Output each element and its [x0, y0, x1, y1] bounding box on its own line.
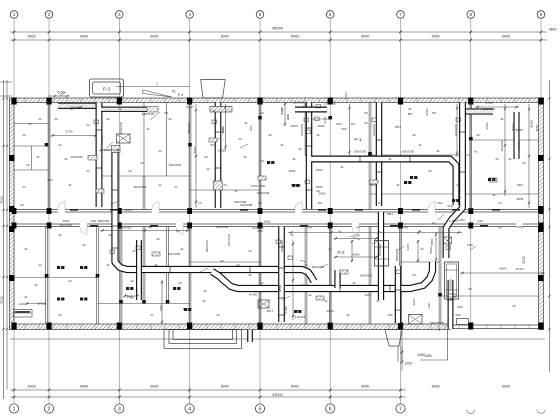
svg-text:7000: 7000 — [0, 296, 4, 304]
svg-text:42: 42 — [236, 263, 240, 267]
svg-text:3000: 3000 — [28, 35, 36, 39]
svg-text:160X120: 160X120 — [227, 234, 231, 247]
svg-text:42: 42 — [58, 313, 62, 317]
svg-text:P-4: P-4 — [178, 93, 184, 97]
svg-text:42: 42 — [412, 133, 416, 137]
svg-text:1,0: 1,0 — [198, 201, 203, 205]
svg-text:280: 280 — [257, 229, 262, 233]
svg-text:42: 42 — [420, 247, 424, 251]
svg-text:1950: 1950 — [159, 304, 163, 311]
svg-text:BH4: BH4 — [395, 125, 401, 129]
svg-text:6000: 6000 — [80, 384, 88, 388]
svg-text:2600: 2600 — [125, 208, 132, 212]
svg-text:P-3: P-3 — [103, 87, 111, 92]
svg-text:460X298: 460X298 — [216, 225, 229, 229]
svg-text:46#X96: 46#X96 — [500, 140, 504, 151]
svg-text:42: 42 — [22, 133, 26, 137]
svg-text:8: 8 — [470, 12, 473, 17]
svg-text:41: 41 — [260, 281, 264, 285]
svg-text:630X250: 630X250 — [312, 265, 325, 269]
svg-text:44: 44 — [128, 169, 132, 173]
svg-text:45000: 45000 — [272, 26, 284, 31]
svg-text:41: 41 — [108, 233, 112, 237]
svg-text:42: 42 — [268, 133, 272, 137]
svg-text:41: 41 — [338, 230, 342, 234]
svg-text:4: 4 — [188, 406, 191, 412]
svg-text:44: 44 — [26, 163, 30, 167]
svg-text:42: 42 — [130, 279, 134, 283]
svg-text:3: 3 — [118, 406, 121, 412]
svg-text:41: 41 — [132, 249, 136, 253]
svg-text:3050: 3050 — [535, 124, 539, 131]
svg-text:630X250: 630X250 — [402, 150, 415, 154]
svg-text:44: 44 — [412, 273, 416, 277]
svg-text:560: 560 — [455, 313, 460, 317]
svg-text:6: 6 — [329, 406, 332, 412]
svg-text:41: 41 — [346, 313, 350, 317]
svg-text:5450: 5450 — [517, 225, 524, 229]
svg-text:6000: 6000 — [150, 384, 158, 388]
svg-text:1: 1 — [156, 82, 158, 86]
svg-text:42: 42 — [54, 117, 58, 121]
svg-text:MHB: MHB — [517, 197, 524, 201]
svg-text:41: 41 — [58, 233, 62, 237]
svg-text:42: 42 — [28, 122, 32, 126]
svg-text:41: 41 — [154, 263, 158, 267]
svg-text:1: 1 — [13, 12, 16, 17]
svg-text:41: 41 — [24, 247, 28, 251]
svg-text:1800: 1800 — [291, 124, 298, 128]
svg-text:42: 42 — [364, 121, 368, 125]
svg-text:1750: 1750 — [486, 101, 493, 105]
svg-text:1468: 1468 — [517, 142, 521, 149]
svg-text:648X128: 648X128 — [142, 112, 155, 116]
svg-text:41J40: 41J40 — [249, 293, 258, 297]
svg-text:42: 42 — [216, 313, 220, 317]
svg-text:160: 160 — [387, 313, 392, 317]
svg-text:44: 44 — [22, 185, 26, 189]
svg-text:41K325: 41K325 — [295, 315, 306, 319]
svg-text:400X200: 400X200 — [300, 124, 304, 137]
svg-text:6000: 6000 — [502, 384, 510, 388]
svg-text:41: 41 — [280, 143, 284, 147]
svg-text:41: 41 — [376, 299, 380, 303]
svg-text:42: 42 — [220, 259, 224, 263]
svg-text:6800: 6800 — [500, 267, 507, 271]
svg-text:3650: 3650 — [221, 126, 225, 133]
svg-text:F1: F1 — [432, 221, 436, 225]
svg-text:630X500: 630X500 — [360, 274, 373, 278]
svg-text:560: 560 — [457, 305, 462, 309]
svg-text:41: 41 — [340, 165, 344, 169]
svg-text:41: 41 — [244, 121, 248, 125]
svg-text:4,8: 4,8 — [258, 201, 263, 205]
svg-text:42: 42 — [304, 263, 308, 267]
svg-text:42: 42 — [324, 299, 328, 303]
svg-text:1150 1000: 1150 1000 — [251, 184, 266, 188]
svg-text:44: 44 — [223, 183, 227, 187]
svg-text:41: 41 — [24, 295, 28, 299]
svg-text:41: 41 — [158, 149, 162, 153]
svg-text:41: 41 — [38, 117, 42, 121]
svg-text:2100: 2100 — [323, 116, 327, 123]
svg-text:41: 41 — [292, 157, 296, 161]
svg-text:500: 500 — [47, 178, 52, 182]
svg-text:CkT: CkT — [437, 325, 441, 331]
svg-text:380X200: 380X200 — [205, 240, 209, 253]
svg-text:H8: H8 — [432, 111, 436, 115]
svg-text:2050: 2050 — [425, 108, 429, 115]
svg-text:4300: 4300 — [353, 253, 360, 257]
svg-text:41: 41 — [106, 263, 110, 267]
svg-text:H9: H9 — [404, 226, 408, 230]
svg-text:2: 2 — [48, 406, 51, 412]
svg-text:F1: F1 — [498, 201, 502, 205]
svg-text:H3: H3 — [378, 201, 382, 205]
svg-text:3: 3 — [118, 12, 121, 17]
svg-text:42: 42 — [106, 117, 110, 121]
svg-text:42: 42 — [238, 137, 242, 141]
svg-text:7000: 7000 — [0, 196, 4, 204]
svg-text:41: 41 — [158, 183, 162, 187]
svg-text:42: 42 — [38, 263, 42, 267]
svg-text:630X250: 630X250 — [354, 150, 367, 154]
svg-text:K23 320X250: K23 320X250 — [91, 219, 110, 223]
svg-text:41: 41 — [260, 226, 264, 230]
svg-text:42: 42 — [140, 161, 144, 165]
svg-text:41: 41 — [436, 149, 440, 153]
svg-text:560?: 560? — [450, 292, 457, 296]
svg-text:1800: 1800 — [289, 169, 296, 173]
svg-text:41: 41 — [456, 183, 460, 187]
svg-text:BH: BH — [408, 112, 412, 116]
svg-text:41: 41 — [150, 313, 154, 317]
svg-text:6000: 6000 — [221, 384, 229, 388]
svg-text:1450: 1450 — [424, 354, 432, 358]
svg-text:42: 42 — [68, 279, 72, 283]
svg-text:41: 41 — [290, 233, 294, 237]
svg-text:6: 6 — [329, 12, 332, 17]
svg-text:42: 42 — [308, 293, 312, 297]
svg-text:P.RNB: P.RNB — [100, 135, 104, 144]
svg-text:41: 41 — [388, 157, 392, 161]
svg-text:940: 940 — [286, 114, 290, 119]
svg-text:41: 41 — [408, 107, 412, 111]
svg-text:3,90: 3,90 — [427, 303, 431, 309]
svg-text:1800: 1800 — [264, 220, 271, 224]
svg-text:42: 42 — [508, 157, 512, 161]
svg-text:42: 42 — [260, 111, 264, 115]
svg-text:42: 42 — [522, 161, 526, 165]
svg-text:42: 42 — [20, 203, 24, 207]
svg-text:140X325: 140X325 — [119, 226, 132, 230]
svg-text:P1: P1 — [172, 90, 176, 94]
svg-text:42: 42 — [316, 189, 320, 193]
svg-text:4650: 4650 — [327, 309, 334, 313]
svg-text:M51: M51 — [387, 212, 393, 216]
svg-text:41: 41 — [180, 247, 184, 251]
svg-text:41: 41 — [328, 247, 332, 251]
svg-text:526: 526 — [447, 204, 452, 208]
svg-text:41: 41 — [212, 109, 216, 113]
svg-text:6000: 6000 — [221, 35, 229, 39]
svg-text:400X200: 400X200 — [378, 244, 382, 257]
svg-text:1650: 1650 — [104, 148, 111, 152]
svg-text:1300: 1300 — [404, 362, 412, 366]
svg-text:6000: 6000 — [432, 384, 440, 388]
svg-text:41: 41 — [86, 169, 90, 173]
svg-text:430X298: 430X298 — [234, 200, 247, 204]
svg-text:Q10: Q10 — [477, 219, 483, 223]
svg-text:6000: 6000 — [432, 35, 440, 39]
svg-text:6,750: 6,750 — [284, 306, 288, 314]
svg-text:44: 44 — [248, 249, 252, 253]
svg-text:H9: H9 — [468, 287, 472, 291]
svg-text:600: 600 — [341, 127, 346, 131]
svg-text:320X250: 320X250 — [70, 155, 83, 159]
svg-text:41: 41 — [500, 117, 504, 121]
svg-text:BUT: BUT — [267, 309, 273, 313]
svg-text:41: 41 — [300, 283, 304, 287]
svg-text:589: 589 — [37, 302, 42, 306]
svg-text:288X368: 288X368 — [70, 106, 83, 110]
svg-text:520: 520 — [210, 143, 215, 147]
svg-text:1800: 1800 — [316, 168, 323, 172]
svg-text:41: 41 — [418, 143, 422, 147]
svg-text:6000: 6000 — [150, 35, 158, 39]
svg-text:388X905: 388X905 — [395, 249, 399, 262]
svg-text:41: 41 — [34, 283, 38, 287]
svg-text:329X298: 329X298 — [119, 122, 123, 135]
svg-text:41: 41 — [146, 127, 150, 131]
svg-text:4.250: 4.250 — [449, 219, 457, 223]
svg-text:8580: 8580 — [429, 246, 433, 253]
svg-text:42: 42 — [58, 143, 62, 147]
svg-text:45000: 45000 — [272, 393, 283, 397]
svg-text:3200: 3200 — [406, 243, 410, 250]
svg-text:6000: 6000 — [502, 35, 510, 39]
svg-text:5: 5 — [259, 12, 262, 17]
svg-text:44: 44 — [495, 157, 499, 161]
svg-text:42: 42 — [64, 157, 68, 161]
svg-text:6000: 6000 — [80, 35, 88, 39]
svg-text:K0: K0 — [351, 122, 355, 126]
svg-text:41: 41 — [234, 189, 238, 193]
svg-text:7: 7 — [399, 12, 402, 17]
svg-text:41: 41 — [498, 226, 502, 230]
svg-text:M51: M51 — [517, 183, 523, 187]
svg-text:1400: 1400 — [19, 302, 26, 306]
svg-text:600X250: 600X250 — [60, 223, 73, 227]
svg-text:42: 42 — [156, 237, 160, 241]
svg-text:2100: 2100 — [344, 92, 348, 99]
svg-text:400X200: 400X200 — [372, 124, 376, 137]
svg-text:630X500: 630X500 — [169, 163, 182, 167]
svg-text:41: 41 — [202, 299, 206, 303]
svg-text:44: 44 — [356, 226, 360, 230]
svg-text:H4: H4 — [164, 111, 168, 115]
svg-text:1607: 1607 — [365, 293, 372, 297]
svg-text:6000: 6000 — [291, 35, 299, 39]
svg-text:41: 41 — [86, 123, 90, 127]
svg-text:41: 41 — [36, 155, 40, 159]
svg-text:6000: 6000 — [291, 384, 299, 388]
svg-text:42: 42 — [204, 155, 208, 159]
svg-text:6000: 6000 — [361, 384, 369, 388]
svg-text:480X200: 480X200 — [257, 191, 270, 195]
svg-text:520: 520 — [249, 125, 253, 130]
svg-text:5850: 5850 — [430, 238, 434, 245]
svg-text:H3: H3 — [308, 226, 312, 230]
svg-text:42: 42 — [178, 281, 182, 285]
svg-text:6,017: 6,017 — [186, 105, 194, 109]
svg-text:42: 42 — [168, 117, 172, 121]
svg-text:42: 42 — [476, 133, 480, 137]
svg-text:42: 42 — [203, 289, 207, 293]
svg-text:4: 4 — [188, 12, 191, 17]
svg-text:3050: 3050 — [530, 120, 534, 128]
svg-text:4k: 4k — [248, 273, 252, 277]
svg-text:520: 520 — [467, 243, 472, 247]
svg-text:P-2: P-2 — [337, 250, 345, 255]
svg-text:41: 41 — [174, 185, 178, 189]
svg-text:1: 1 — [13, 406, 16, 412]
svg-text:44: 44 — [260, 159, 264, 163]
svg-text:2: 2 — [48, 12, 51, 17]
svg-text:H8: H8 — [318, 201, 322, 205]
svg-text:500X250: 500X250 — [134, 185, 147, 189]
svg-text:3000: 3000 — [28, 384, 36, 388]
svg-text:42: 42 — [512, 304, 516, 308]
svg-text:4600: 4600 — [318, 124, 325, 128]
svg-text:888208: 888208 — [187, 123, 191, 134]
svg-text:42: 42 — [82, 243, 86, 247]
svg-text:H4: H4 — [364, 111, 368, 115]
svg-text:41: 41 — [492, 193, 496, 197]
svg-text:42: 42 — [352, 281, 356, 285]
svg-text:400X200: 400X200 — [454, 124, 458, 137]
svg-text:320X200: 320X200 — [483, 107, 496, 111]
svg-text:41: 41 — [396, 183, 400, 187]
svg-text:41: 41 — [298, 147, 302, 151]
svg-text:9: 9 — [540, 12, 543, 17]
svg-text:H51: H51 — [437, 201, 443, 205]
svg-text:42: 42 — [428, 169, 432, 173]
svg-text:41: 41 — [68, 183, 72, 187]
svg-text:41: 41 — [418, 229, 422, 233]
svg-text:320X200: 320X200 — [168, 252, 181, 256]
svg-text:P-1: P-1 — [354, 137, 362, 142]
svg-text:1000X(B): 1000X(B) — [449, 279, 453, 291]
svg-text:7: 7 — [399, 406, 402, 412]
svg-text:2050: 2050 — [485, 122, 489, 129]
svg-text:2050: 2050 — [522, 256, 526, 264]
svg-text:42: 42 — [316, 133, 320, 137]
svg-text:6000: 6000 — [361, 35, 369, 39]
svg-text:2150: 2150 — [280, 107, 284, 114]
svg-text:6383X605: 6383X605 — [430, 321, 444, 325]
svg-text:41: 41 — [474, 150, 478, 154]
svg-text:12250: 12250 — [218, 149, 227, 153]
svg-text:320X200: 320X200 — [324, 102, 337, 106]
svg-text:3650: 3650 — [193, 146, 197, 153]
svg-text:44: 44 — [243, 155, 247, 159]
svg-text:18.KK: 18.KK — [515, 267, 524, 271]
svg-text:6,250: 6,250 — [457, 218, 465, 222]
svg-text:K54: K54 — [336, 122, 342, 126]
svg-text:41: 41 — [118, 107, 122, 111]
svg-text:4500: 4500 — [549, 28, 557, 32]
svg-text:42: 42 — [206, 167, 210, 171]
svg-text:3450: 3450 — [417, 353, 425, 357]
svg-text:3700: 3700 — [66, 130, 73, 134]
svg-text:5: 5 — [259, 406, 262, 412]
svg-text:3200: 3200 — [412, 298, 416, 305]
svg-text:320X200: 320X200 — [293, 101, 306, 105]
